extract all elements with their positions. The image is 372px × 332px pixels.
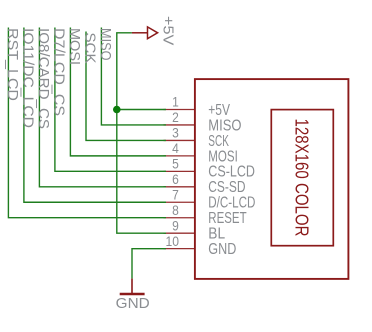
svg-text:D7/LCD_CS: D7/LCD_CS bbox=[50, 28, 67, 116]
pin names bbox=[208, 102, 255, 258]
wire net D7/LCD_CS bbox=[55, 28, 166, 172]
svg-text:RESET: RESET bbox=[208, 210, 246, 227]
svg-text:1: 1 bbox=[172, 94, 179, 110]
wire net MOSI bbox=[70, 28, 166, 156]
svg-text:CS-LCD: CS-LCD bbox=[208, 164, 255, 181]
GND symbol bbox=[120, 279, 145, 294]
svg-text:MISO: MISO bbox=[97, 28, 114, 61]
wire +5V to pin 1 bbox=[117, 109, 166, 111]
svg-text:9: 9 bbox=[172, 217, 179, 233]
green wires bbox=[8, 28, 166, 279]
svg-text:10: 10 bbox=[166, 233, 180, 249]
pin 7 stub bbox=[164, 201, 195, 203]
pin 1 stub bbox=[164, 109, 195, 111]
svg-text:+5V: +5V bbox=[160, 16, 177, 45]
svg-text:4: 4 bbox=[172, 140, 179, 156]
wire net IO11/DC_LCD bbox=[24, 28, 166, 203]
svg-text:2: 2 bbox=[172, 109, 179, 125]
pin 9 stub bbox=[164, 232, 195, 234]
junction dot bbox=[113, 106, 121, 114]
svg-text:MISO: MISO bbox=[208, 117, 241, 134]
svg-text:RST_LCD: RST_LCD bbox=[4, 28, 21, 101]
pin 4 stub bbox=[164, 155, 195, 157]
svg-text:5: 5 bbox=[172, 156, 179, 172]
svg-text:SCK: SCK bbox=[208, 133, 229, 150]
wire net +5V vertical trunk bbox=[117, 33, 166, 233]
svg-text:MOSI: MOSI bbox=[208, 148, 238, 165]
pin stubs (dark red) bbox=[164, 110, 195, 249]
svg-text:3: 3 bbox=[172, 125, 179, 141]
svg-text:CS-SD: CS-SD bbox=[208, 179, 245, 196]
svg-text:IO11/DC_LCD: IO11/DC_LCD bbox=[19, 28, 36, 128]
wire net IO8/CARD_CS bbox=[39, 28, 166, 187]
svg-text:GND: GND bbox=[116, 296, 150, 312]
pin 3 stub bbox=[164, 139, 195, 141]
wire net GND bbox=[132, 249, 166, 279]
pin 5 stub bbox=[164, 170, 195, 172]
svg-text:D/C-LCD: D/C-LCD bbox=[208, 195, 255, 212]
+5V supply symbol bbox=[132, 27, 158, 39]
svg-text:+5V: +5V bbox=[208, 102, 230, 119]
svg-text:128X160 COLOR: 128X160 COLOR bbox=[291, 119, 311, 237]
svg-text:IO8/CARD_CS: IO8/CARD_CS bbox=[35, 28, 52, 129]
pin 2 stub bbox=[164, 124, 195, 126]
connector symbol body (big rectangle) bbox=[195, 79, 349, 279]
svg-text:BL: BL bbox=[208, 226, 225, 243]
svg-text:7: 7 bbox=[172, 186, 179, 202]
wire net MISO bbox=[101, 28, 166, 125]
pin 6 stub bbox=[164, 186, 195, 188]
svg-text:GND: GND bbox=[208, 241, 236, 258]
pin 10 stub bbox=[164, 248, 195, 250]
wire net SCK bbox=[86, 32, 166, 141]
pin 8 stub bbox=[164, 217, 195, 219]
wire net RST_LCD bbox=[8, 28, 166, 218]
svg-text:8: 8 bbox=[172, 202, 179, 218]
pin numbers bbox=[166, 94, 180, 249]
svg-text:MOSI: MOSI bbox=[66, 28, 83, 65]
svg-text:SCK: SCK bbox=[82, 33, 99, 64]
svg-text:6: 6 bbox=[172, 171, 179, 187]
LCD module box bbox=[271, 110, 333, 246]
